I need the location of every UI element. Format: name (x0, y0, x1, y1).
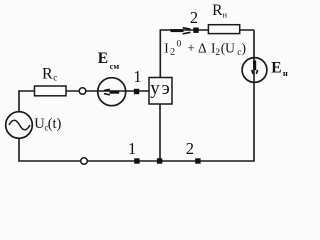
svg-text:н: н (283, 68, 288, 78)
svg-text:Δ: Δ (198, 40, 207, 55)
svg-text:1: 1 (128, 139, 136, 158)
svg-text:R: R (212, 2, 223, 19)
svg-text:(t): (t) (48, 116, 62, 132)
svg-text:0: 0 (177, 39, 182, 49)
svg-text:1: 1 (133, 67, 141, 86)
svg-text:E: E (98, 50, 108, 67)
svg-text:R: R (42, 65, 53, 82)
svg-text:2: 2 (190, 8, 198, 27)
svg-text:): ) (242, 40, 247, 55)
svg-text:+: + (187, 40, 195, 55)
svg-text:уэ: уэ (150, 78, 171, 99)
svg-text:см: см (110, 61, 120, 71)
svg-text:2: 2 (170, 47, 175, 58)
svg-text:2: 2 (215, 48, 220, 58)
svg-text:E: E (271, 60, 281, 77)
svg-text:c: c (53, 73, 57, 83)
svg-text:I: I (164, 40, 169, 55)
svg-text:н: н (223, 9, 228, 19)
svg-text:(U: (U (221, 40, 235, 55)
svg-text:2: 2 (186, 139, 194, 158)
